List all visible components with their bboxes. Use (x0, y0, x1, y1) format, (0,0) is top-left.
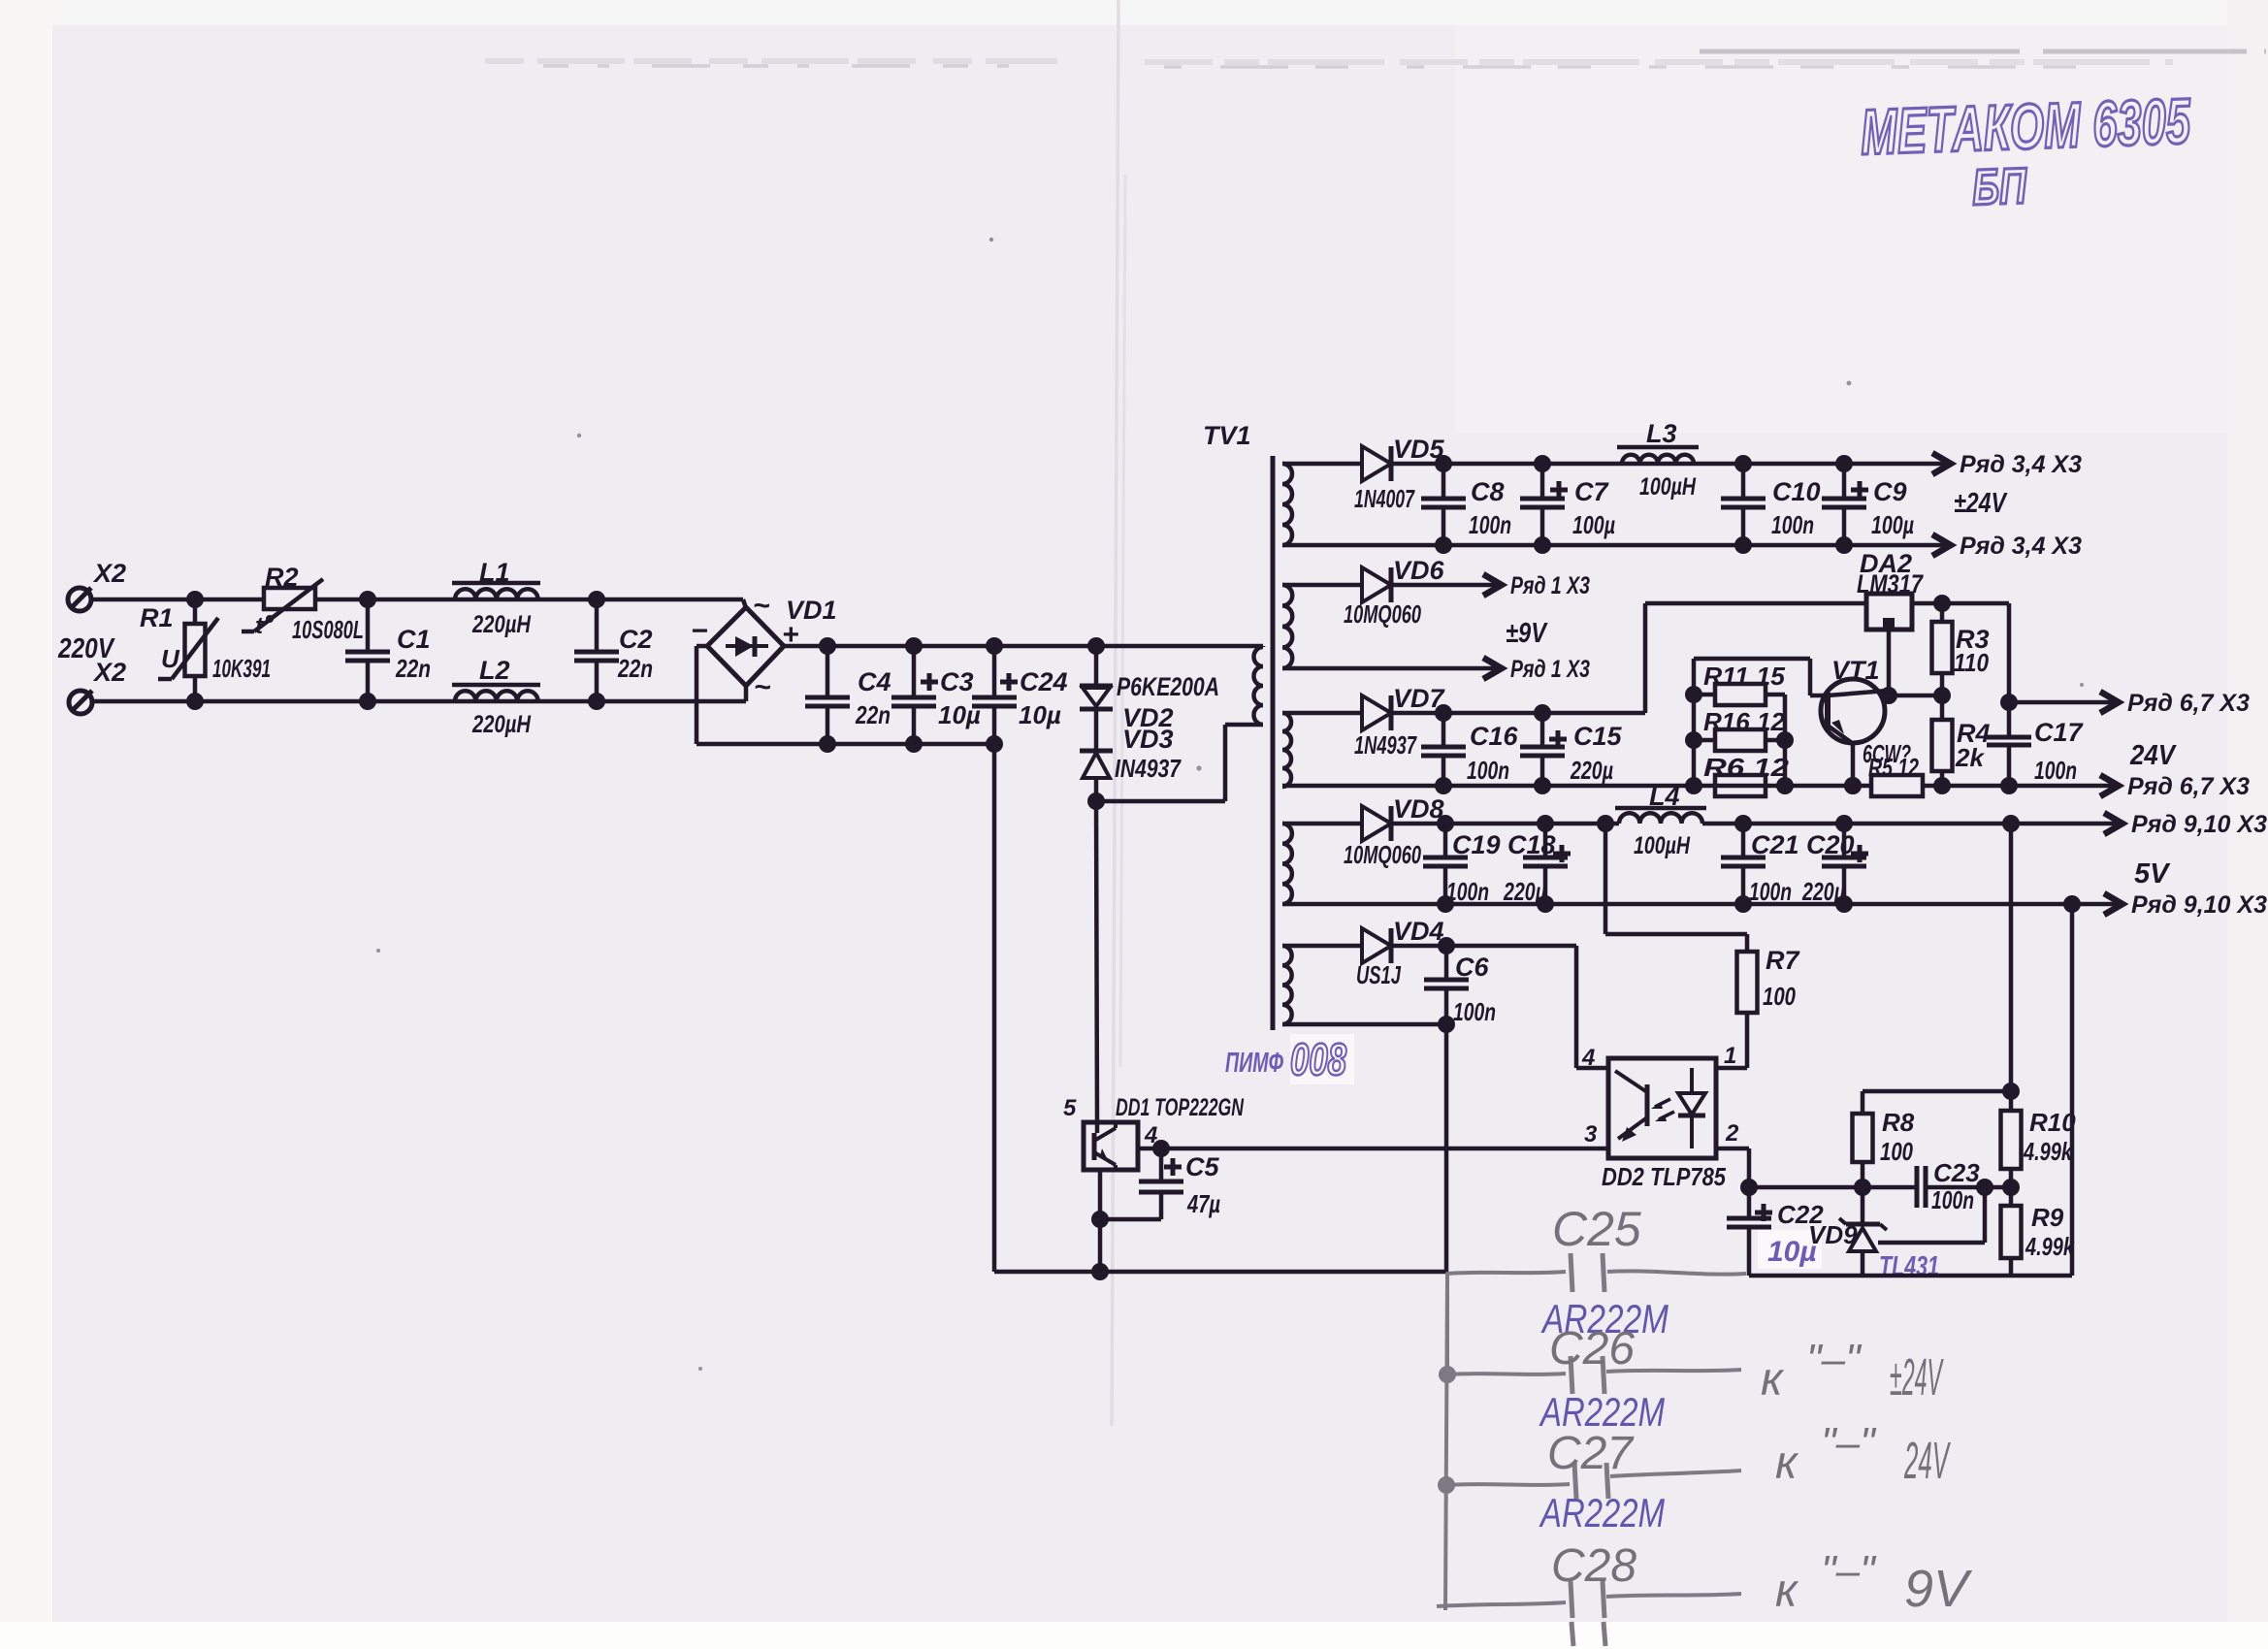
arrow out row C bottom (2100, 773, 2250, 800)
svg-text:Ряд 9,10 Х3: Ряд 9,10 Х3 (2131, 891, 2267, 919)
svg-text:10K391: 10K391 (212, 654, 271, 683)
svg-text:220µ: 220µ (1801, 877, 1845, 906)
svg-text:−: − (691, 615, 708, 647)
resistor R11 15 (1694, 662, 1786, 705)
svg-text:100n: 100n (1446, 877, 1489, 906)
svg-text:~: ~ (754, 671, 771, 703)
wire row C top (1282, 711, 1645, 716)
wire row C bottom rail (1282, 777, 1871, 794)
svg-text:100n: 100n (1771, 510, 1814, 539)
capacitor C3 10u (891, 637, 981, 753)
wire collector node (1885, 687, 1951, 704)
wire DD1 source down (1091, 1170, 1109, 1280)
node X2 top terminal (68, 559, 126, 611)
optocoupler DD2 TLP785 box (1581, 1043, 1739, 1191)
wire TL431 ref (1878, 1187, 1985, 1243)
optocoupler DD2 LED (1651, 1068, 1705, 1148)
svg-text:R2: R2 (265, 563, 299, 592)
svg-text:±9V: ±9V (1506, 618, 1548, 649)
capacitor C17 100n (1987, 603, 2085, 786)
svg-text:C4: C4 (858, 667, 891, 696)
transformer secondary winding w2 (1282, 585, 1292, 668)
svg-text:"–": "–" (1806, 1336, 1863, 1383)
capacitor C20 220u (1801, 815, 1868, 913)
inductor L3 100uH (1617, 419, 1699, 501)
svg-text:±24V: ±24V (1890, 1348, 1944, 1406)
diode VD8 10MQ060 (1344, 794, 1444, 869)
svg-text:R1: R1 (140, 603, 174, 632)
svg-text:±24V: ±24V (1954, 488, 2008, 519)
svg-text:R9: R9 (2031, 1203, 2064, 1232)
svg-text:4: 4 (1581, 1045, 1595, 1071)
svg-text:C26: C26 (1549, 1323, 1635, 1374)
svg-text:C2: C2 (619, 625, 653, 654)
svg-text:US1J: US1J (1356, 960, 1401, 989)
svg-text:TV1: TV1 (1203, 421, 1251, 450)
bridge rectifier VD1 (691, 590, 837, 703)
svg-text:C7: C7 (1574, 477, 1609, 506)
arrow out row A top (1932, 451, 2082, 478)
pencil capacitor C28 (1437, 1540, 1741, 1646)
wire row D bottom (1282, 895, 2122, 913)
wire VD4 to pin4 (1576, 946, 1608, 1068)
svg-text:"–": "–" (1821, 1419, 1877, 1467)
svg-text:C8: C8 (1471, 477, 1505, 506)
svg-text:220V: 220V (57, 633, 115, 664)
resistor R5 12 (1868, 753, 2120, 796)
resistor R6 12 (1703, 753, 1790, 796)
svg-text:C16: C16 (1470, 722, 1519, 751)
svg-text:C25: C25 (1552, 1202, 1641, 1256)
svg-text:Ряд 3,4 Х3: Ряд 3,4 Х3 (1960, 451, 2082, 478)
svg-text:Ряд 9,10 Х3: Ряд 9,10 Х3 (2131, 811, 2267, 838)
diode VD6 10MQ060 (1344, 556, 1445, 629)
svg-text:LM317: LM317 (1857, 569, 1925, 598)
resistor R16 12 (1694, 707, 1786, 751)
resistor R9 4.99k (2001, 1203, 2076, 1276)
wire DD2 pin2 (1716, 1148, 1758, 1196)
wire AC bottom (92, 686, 746, 701)
label +-9V (1506, 618, 1548, 649)
svg-text:R10: R10 (2029, 1108, 2076, 1137)
svg-text:R6 12: R6 12 (1703, 753, 1790, 782)
svg-text:24V: 24V (2129, 740, 2177, 771)
svg-text:9V: 9V (1904, 1560, 1973, 1618)
diode VD2 P6KE200A (1080, 637, 1219, 732)
svg-text:Ряд 6,7 Х3: Ряд 6,7 Х3 (2127, 690, 2250, 717)
svg-text:VD9: VD9 (1808, 1220, 1858, 1249)
wire row B top (1282, 583, 1502, 588)
svg-text:C23: C23 (1933, 1158, 1980, 1187)
wire C6 down (1444, 1024, 1449, 1272)
pencil capacitor C25 (1552, 1202, 1641, 1292)
svg-text:ПИМФ: ПИМФ (1225, 1048, 1283, 1079)
svg-text:22n: 22n (855, 700, 891, 729)
svg-text:2: 2 (1725, 1120, 1739, 1147)
svg-text:100n: 100n (1453, 997, 1496, 1026)
svg-text:C6: C6 (1455, 953, 1489, 982)
handwritten AR222M 1 (1540, 1296, 1669, 1342)
pencil wire bus extension (1447, 1271, 1746, 1274)
wire LM317 out (1912, 595, 2009, 612)
wire row E bottom (1282, 1022, 1446, 1027)
diode VD9 TL431 (1808, 1187, 1939, 1282)
svg-text:5: 5 (1063, 1095, 1077, 1121)
svg-text:R5 12: R5 12 (1868, 753, 1919, 782)
diode VD7 1N4937 (1354, 684, 1446, 760)
wire drain to DD1 (1096, 801, 1097, 1122)
scan noise band top (485, 61, 2173, 62)
svg-text:3: 3 (1584, 1121, 1598, 1148)
patch whiteout 10u (1758, 1230, 1822, 1269)
svg-text:C5: C5 (1185, 1152, 1219, 1181)
svg-text:L4: L4 (1649, 782, 1680, 811)
arrow out row D bottom (2104, 891, 2267, 919)
diode VD4 US1J (1356, 917, 1444, 989)
wire C5 return (1091, 1211, 1161, 1228)
svg-text:100µ: 100µ (1871, 510, 1914, 539)
capacitor C18 220u (1503, 815, 1571, 913)
pencil wire down (1438, 1274, 1456, 1610)
svg-text:C27: C27 (1547, 1428, 1635, 1479)
diode VD5 1N4007 (1354, 435, 1445, 513)
wire pin2 node to R8 (1749, 1179, 1917, 1196)
handwritten k minus 24V b (1775, 1419, 1951, 1490)
svg-text:4.99k: 4.99k (2023, 1137, 2073, 1166)
capacitor C23 100n (1917, 1158, 2020, 1214)
svg-text:24V: 24V (1904, 1432, 1952, 1490)
regulator DA2 LM317 (1857, 549, 1925, 630)
handwritten AR222M 3 (1539, 1490, 1665, 1536)
svg-text:VT1: VT1 (1831, 656, 1880, 685)
resistor network right rail (1776, 695, 1794, 794)
label +-24V (1954, 488, 2008, 519)
handwritten title METAKOM 6305 (1860, 84, 2194, 220)
inductor L1 220uH (452, 558, 540, 638)
svg-text:220µ: 220µ (1503, 877, 1546, 906)
wire LM317 adj (1880, 630, 1897, 704)
wire TL431 bottom rail (1749, 904, 2072, 1276)
svg-text:100: 100 (1880, 1137, 1913, 1166)
svg-text:L1: L1 (479, 558, 510, 587)
wire DC plus bus (784, 644, 1263, 649)
svg-text:X2: X2 (92, 559, 126, 588)
svg-text:100µH: 100µH (1634, 832, 1691, 859)
svg-text:008: 008 (1290, 1034, 1346, 1084)
svg-text:DD2 TLP785: DD2 TLP785 (1602, 1162, 1726, 1191)
capacitor C8 100n (1421, 455, 1511, 554)
svg-text:C1: C1 (397, 625, 431, 654)
wire divider top (1863, 1083, 2020, 1100)
svg-text:100n: 100n (1467, 756, 1509, 785)
svg-text:МЕТАКОМ 6305: МЕТАКОМ 6305 (1860, 84, 2192, 168)
transformer secondary winding w1 (1282, 464, 1292, 545)
capacitor C10 100n (1721, 455, 1821, 554)
wire row D top (1282, 822, 2122, 826)
arrow out row A bottom (1932, 533, 2082, 560)
arrow out row B top (1483, 572, 1590, 599)
svg-text:C24: C24 (1020, 667, 1068, 696)
svg-text:Ряд 1 Х3: Ряд 1 Х3 (1510, 656, 1590, 683)
svg-text:L3: L3 (1646, 419, 1677, 448)
capacitor C9 100u (1822, 455, 1914, 554)
svg-text:100µH: 100µH (1639, 473, 1697, 501)
svg-text:~: ~ (753, 590, 770, 622)
handwritten AR222M 2 (1539, 1389, 1665, 1435)
resistor network left rail (1685, 659, 1702, 794)
wire row A top (1282, 462, 1951, 467)
node X2 bottom terminal (69, 658, 126, 714)
svg-text:IN4937: IN4937 (1115, 754, 1182, 783)
svg-text:110: 110 (1954, 648, 1989, 677)
svg-text:C17: C17 (2034, 718, 2085, 747)
diode VD3 1N4937 (1080, 709, 1182, 810)
svg-text:к: к (1761, 1354, 1785, 1406)
wire DD1 pin4 to DD2 pin3 (1138, 1140, 1608, 1157)
svg-text:2k: 2k (1955, 743, 1985, 772)
svg-text:U: U (161, 644, 180, 673)
transformer secondary winding w3 (1282, 713, 1291, 787)
resistor R2 thermistor 10S080L (242, 563, 364, 644)
inductor L2 220uH (452, 656, 540, 738)
svg-text:C3: C3 (940, 667, 974, 696)
svg-text:100µ: 100µ (1572, 510, 1615, 539)
label 5V (2134, 858, 2171, 889)
svg-text:220µH: 220µH (471, 611, 532, 638)
wire primary return vertical (994, 744, 1447, 1272)
resistor R7 100 (1605, 824, 1800, 1068)
capacitor C24 10u (972, 637, 1068, 753)
svg-text:Ряд 6,7 Х3: Ряд 6,7 Х3 (2127, 773, 2250, 800)
resistor R3 110 (1932, 603, 1990, 695)
wire row E top (1282, 944, 1576, 949)
wire row A bottom (1282, 543, 1951, 548)
svg-text:C10: C10 (1772, 477, 1821, 506)
capacitor C22 10u (1727, 1187, 1824, 1276)
capacitor C16 100n (1421, 704, 1519, 794)
svg-text:100: 100 (1763, 982, 1796, 1011)
svg-text:C15: C15 (1573, 722, 1623, 751)
svg-text:AR222M: AR222M (1539, 1490, 1665, 1536)
arrow out row D top (2002, 811, 2267, 838)
svg-text:220µ: 220µ (1570, 756, 1613, 785)
optocoupler DD2 phototransistor (1615, 1071, 1647, 1142)
svg-text:R7: R7 (1766, 946, 1800, 975)
svg-text:22n: 22n (395, 654, 431, 683)
svg-text:C20: C20 (1806, 830, 1855, 859)
svg-text:C19: C19 (1452, 830, 1501, 859)
label 24V (2129, 740, 2177, 771)
svg-text:10MQ060: 10MQ060 (1344, 599, 1421, 629)
svg-text:220µH: 220µH (471, 711, 532, 738)
svg-text:47µ: 47µ (1186, 1189, 1220, 1218)
capacitor C7 100u (1520, 455, 1615, 554)
svg-text:C9: C9 (1873, 477, 1907, 506)
svg-text:1N4007: 1N4007 (1354, 484, 1415, 513)
capacitor C21 100n (1721, 815, 1799, 913)
svg-text:R11 15: R11 15 (1703, 662, 1786, 691)
wire VD3 to primary bottom (1096, 725, 1263, 801)
svg-text:1: 1 (1724, 1043, 1736, 1069)
svg-text:22n: 22n (617, 654, 653, 683)
transformer TV1 core (1203, 421, 1273, 1030)
svg-text:Ряд 1 Х3: Ряд 1 Х3 (1510, 572, 1590, 599)
resistor R8 100 (1853, 1091, 1915, 1187)
pencil capacitor C27 (1447, 1428, 1741, 1499)
svg-text:БП: БП (1971, 158, 2028, 216)
svg-text:VD8: VD8 (1393, 794, 1444, 824)
transformer secondary winding w4 (1282, 824, 1292, 904)
svg-text:t: t (255, 613, 264, 639)
svg-text:10S080L: 10S080L (292, 615, 364, 644)
svg-text:VD4: VD4 (1393, 917, 1444, 946)
svg-text:Ряд 3,4 Х3: Ряд 3,4 Х3 (1960, 533, 2082, 560)
capacitor C6 100n (1424, 937, 1496, 1033)
svg-text:к: к (1775, 1566, 1799, 1617)
handwritten k minus 24V a (1761, 1336, 1944, 1406)
crease fold line (1112, 0, 1118, 1426)
capacitor C5 47u (1139, 1148, 1220, 1219)
capacitor C19 100n (1423, 815, 1501, 913)
svg-text:P6KE200A: P6KE200A (1117, 672, 1219, 701)
resistor R1 varistor 10K391 (140, 591, 271, 710)
capacitor C15 220u (1520, 704, 1623, 794)
svg-text:R8: R8 (1882, 1108, 1915, 1137)
capacitor C2 22n (574, 591, 653, 710)
svg-text:5V: 5V (2134, 858, 2171, 889)
transformer secondary winding w5 (1282, 946, 1292, 1024)
switcher DD1 TOP222GN (1063, 1094, 1245, 1170)
transformer primary winding (1254, 646, 1264, 725)
arrow out row B bottom (1483, 656, 1590, 683)
svg-text:100n: 100n (2034, 756, 2077, 785)
svg-text:1N4937: 1N4937 (1354, 730, 1417, 760)
wire row B bottom (1282, 666, 1502, 671)
svg-text:R16 12: R16 12 (1703, 707, 1786, 736)
wire bridge minus to bus (697, 646, 994, 744)
paper specks (376, 238, 2084, 1371)
svg-text:4.99k: 4.99k (2025, 1232, 2075, 1261)
svg-text:100n: 100n (1749, 877, 1792, 906)
pencil capacitor C26 (1447, 1323, 1741, 1394)
svg-text:VD3: VD3 (1122, 725, 1174, 754)
svg-text:к: к (1775, 1438, 1799, 1489)
svg-text:C21: C21 (1751, 830, 1799, 859)
svg-text:10µ: 10µ (1019, 700, 1061, 729)
wire base feed (1694, 659, 1828, 695)
svg-text:C28: C28 (1551, 1540, 1636, 1592)
svg-text:VD6: VD6 (1393, 556, 1445, 585)
svg-text:100n: 100n (1469, 510, 1511, 539)
handwritten k minus 9V (1775, 1547, 1973, 1618)
capacitor C4 22n (805, 637, 891, 753)
svg-text:10MQ060: 10MQ060 (1344, 840, 1421, 869)
svg-text:L2: L2 (479, 656, 510, 685)
transistor VT1 6CW2 (1821, 656, 1911, 794)
resistor R10 4.99k (2001, 824, 2077, 1206)
svg-text:100n: 100n (1931, 1185, 1974, 1214)
inductor L4 100uH (1597, 782, 1706, 859)
arrow out row C top (2009, 690, 2250, 717)
label 220V (57, 633, 115, 664)
resistor R4 2k (1932, 695, 1991, 786)
label PIMF008 (1225, 1034, 1354, 1084)
capacitor C1 22n (345, 591, 431, 710)
wire AC top (91, 599, 746, 608)
svg-text:"–": "–" (1821, 1547, 1877, 1595)
svg-text:C18: C18 (1507, 830, 1556, 859)
svg-text:DD1 TOP222GN: DD1 TOP222GN (1116, 1094, 1245, 1121)
wire riser to LM317 (1645, 603, 1866, 713)
